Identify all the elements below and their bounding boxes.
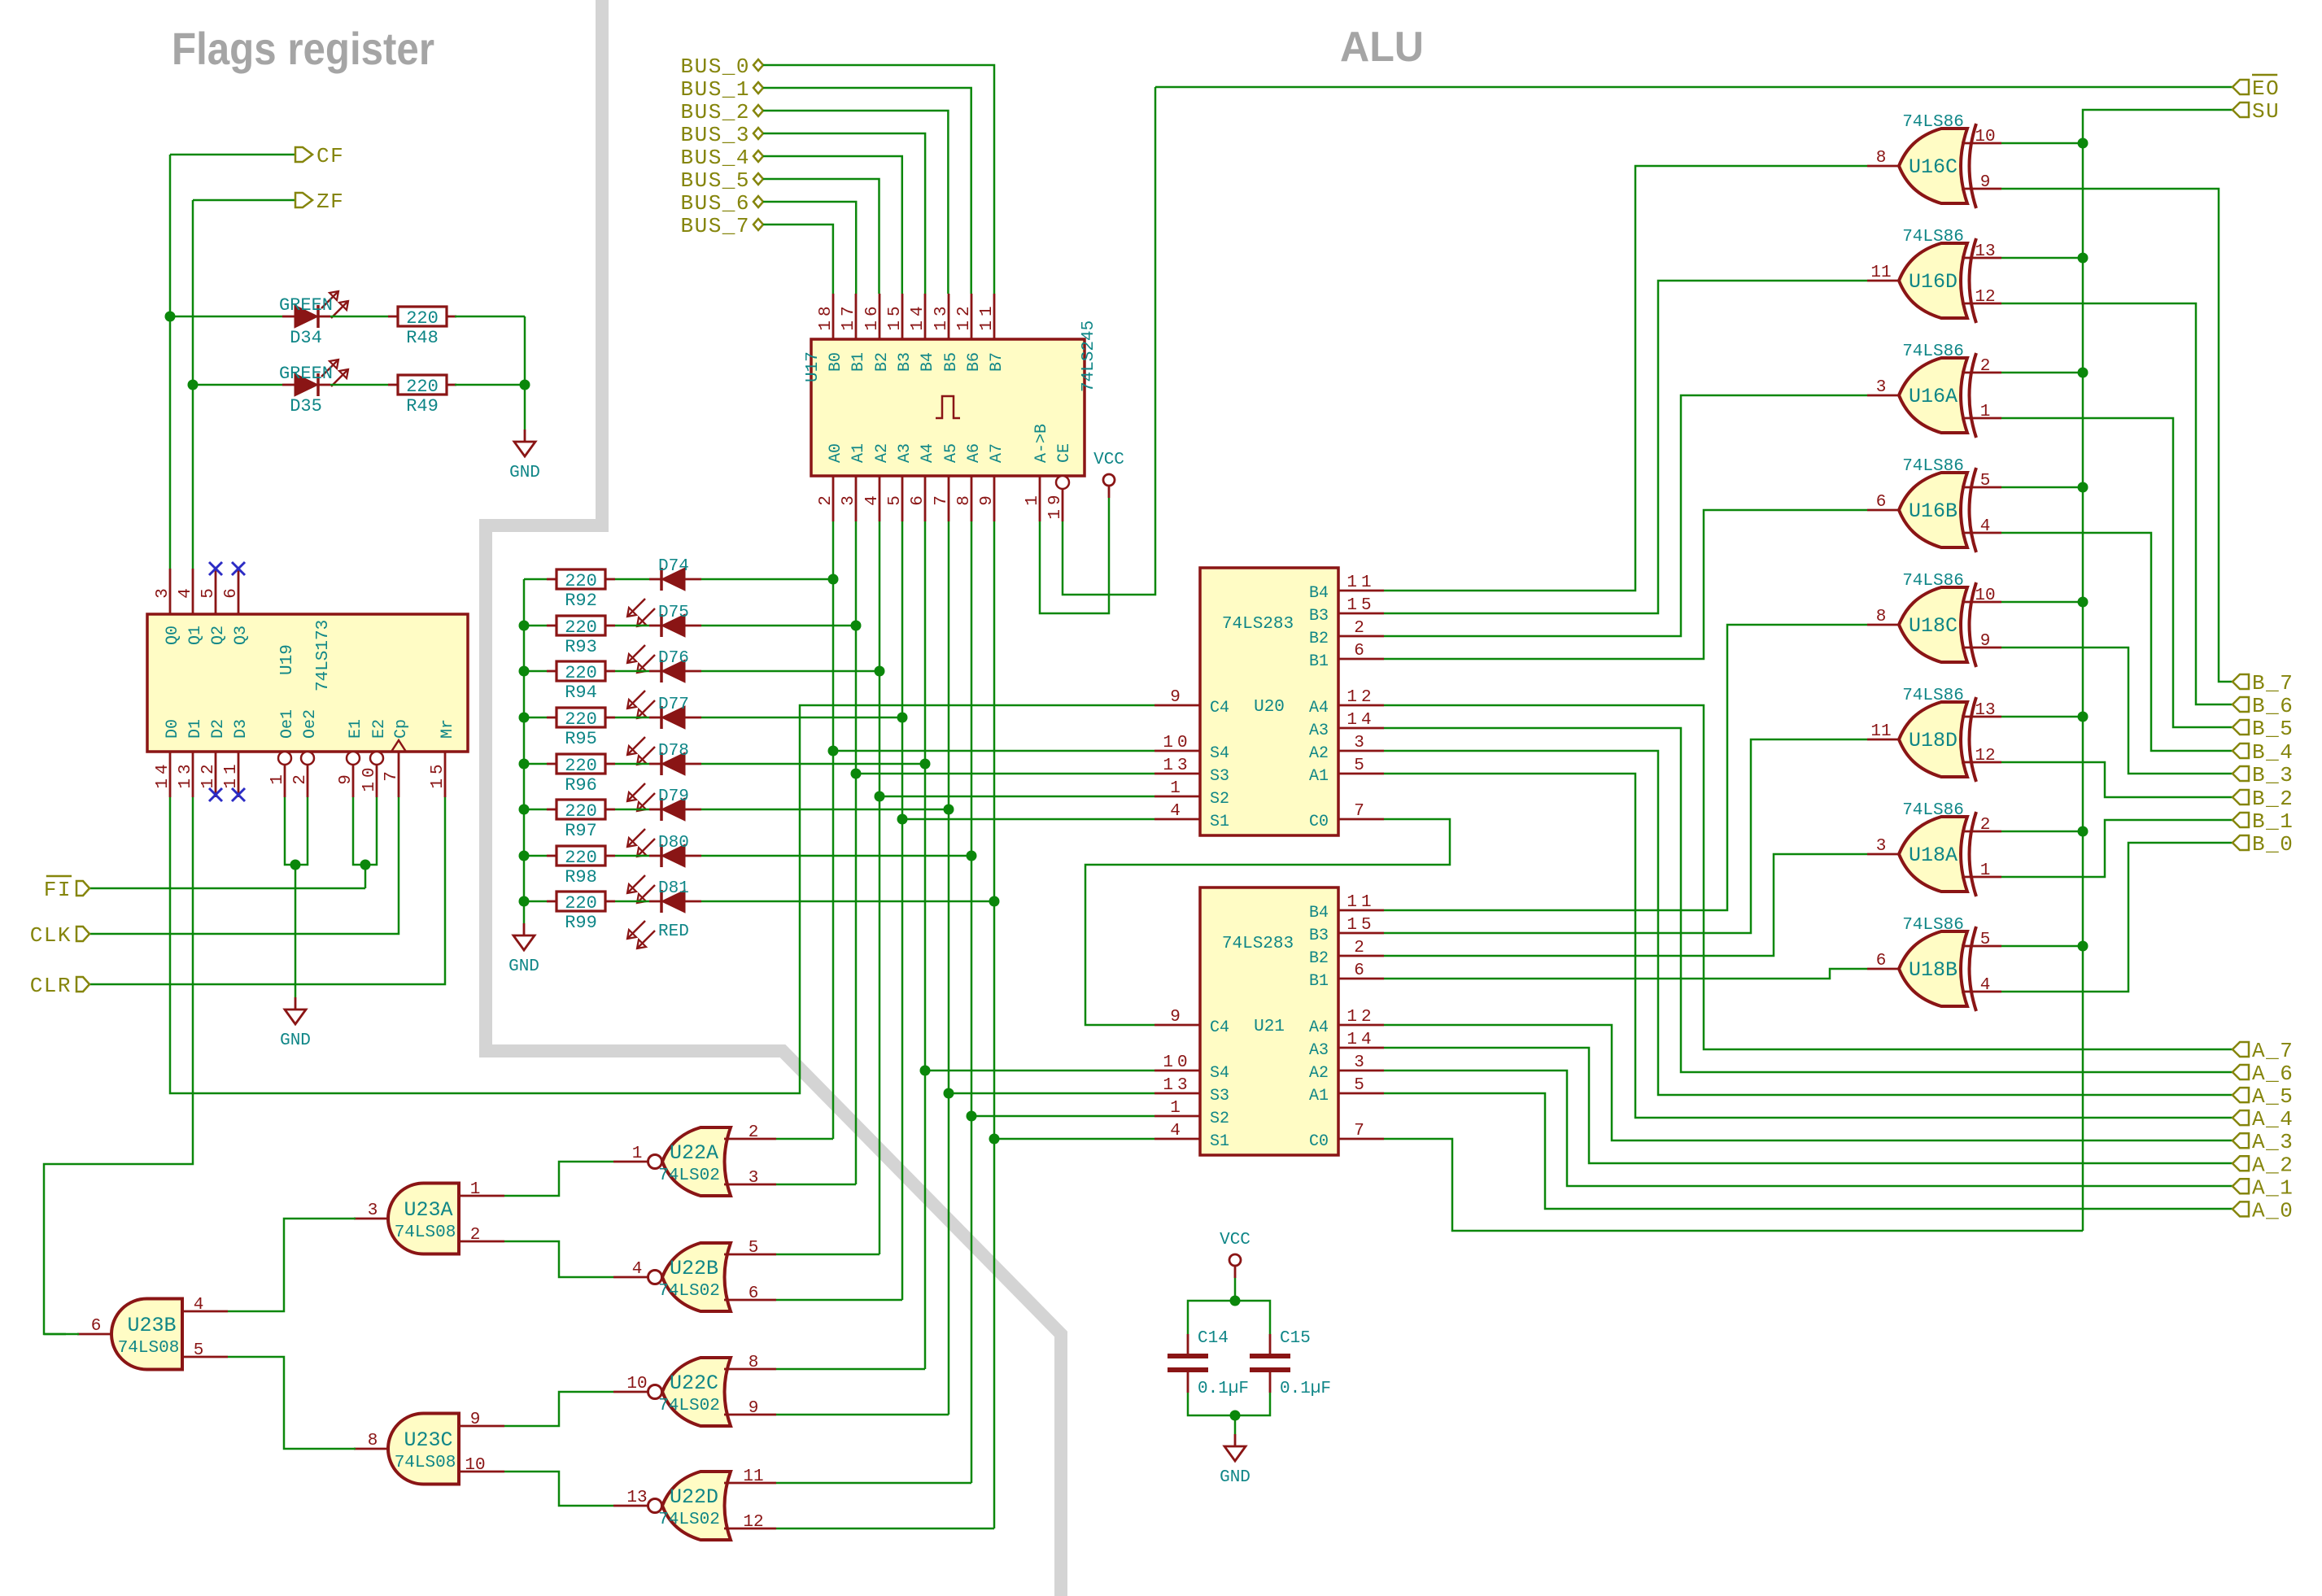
svg-text:S4: S4 (1210, 744, 1229, 763)
svg-text:EO: EO (2252, 76, 2280, 101)
svg-text:GREEN: GREEN (279, 364, 333, 384)
resistor R95 220 (547, 708, 615, 749)
svg-text:D2: D2 (209, 719, 228, 739)
svg-text:B5: B5 (942, 352, 961, 372)
svg-text:4: 4 (1980, 976, 1991, 995)
junction rail R97 (519, 805, 530, 815)
port B_2 (2233, 787, 2294, 811)
no-connect pin 5 U19 (209, 562, 222, 575)
wire bit2 to U22C.9 (776, 1414, 949, 1416)
svg-text:74LS86: 74LS86 (1902, 228, 1964, 246)
svg-text:BUS_2: BUS_2 (680, 100, 750, 124)
port B_7 (2233, 671, 2294, 696)
svg-text:S2: S2 (1210, 1110, 1229, 1128)
wire D76 to sum bit line (701, 670, 879, 673)
wire SU to U21.C0 (1384, 1139, 2083, 1231)
port A_1 (2233, 1175, 2294, 1200)
junction D81 / bit line (989, 896, 1000, 907)
svg-text:B_6: B_6 (2252, 694, 2294, 718)
junction SU / U16A (2078, 368, 2088, 378)
svg-text:S3: S3 (1210, 1087, 1229, 1105)
wire B_0 to xor input (2001, 843, 2233, 992)
svg-text:A4: A4 (919, 443, 937, 463)
svg-text:A3: A3 (1309, 1041, 1329, 1060)
svg-text:4: 4 (1980, 517, 1991, 536)
svg-text:18: 18 (817, 302, 836, 330)
svg-text:R99: R99 (565, 913, 597, 933)
svg-text:B2: B2 (1309, 949, 1329, 968)
svg-text:15: 15 (886, 302, 905, 330)
svg-text:6: 6 (1354, 642, 1368, 661)
svg-text:S2: S2 (1210, 790, 1229, 809)
svg-text:D78: D78 (658, 742, 689, 761)
wire to D34 anode (170, 316, 282, 318)
svg-text:BUS_3: BUS_3 (680, 123, 750, 147)
port A_6 (2233, 1062, 2294, 1086)
svg-text:74LS02: 74LS02 (658, 1397, 720, 1415)
svg-text:11: 11 (222, 760, 241, 788)
xor gate U16A 74LS86 (1867, 342, 2001, 438)
svg-text:B_4: B_4 (2252, 740, 2294, 765)
junction D80 / bit line (967, 851, 977, 861)
wire Oe tie to ground (295, 865, 297, 997)
svg-text:1: 1 (1024, 491, 1042, 506)
svg-text:9: 9 (1980, 173, 1991, 192)
wire R93 to D75 (615, 625, 649, 627)
svg-text:74LS08: 74LS08 (395, 1223, 456, 1242)
svg-text:U23B: U23B (127, 1314, 176, 1337)
svg-text:A1: A1 (1309, 1087, 1329, 1105)
svg-text:2: 2 (1980, 357, 1991, 376)
svg-text:C15: C15 (1280, 1329, 1311, 1348)
wire bit4 to U22B.6 (776, 1299, 902, 1302)
port ZF (295, 190, 344, 214)
svg-text:Q3: Q3 (232, 626, 251, 645)
junction GND rail caps (1230, 1411, 1241, 1421)
svg-text:12: 12 (199, 760, 218, 788)
wire rail to R98 (524, 855, 547, 857)
wire sum to U21.S3 (949, 1092, 1154, 1095)
wire LED ground rail (524, 316, 526, 430)
resistor R99 220 (547, 892, 615, 933)
junction SU / U18A (2078, 826, 2088, 837)
svg-text:R95: R95 (565, 729, 597, 749)
svg-text:74LS86: 74LS86 (1902, 916, 1964, 935)
wire sum to U20.S4 (833, 750, 1154, 752)
svg-text:6: 6 (1876, 952, 1887, 970)
wire SU to U18C top input (2001, 601, 2083, 604)
svg-text:B1: B1 (849, 352, 868, 372)
wire U22C out to U23C.9 (504, 1392, 613, 1426)
svg-text:S1: S1 (1210, 1132, 1229, 1151)
port BUS_0 (680, 55, 763, 79)
wire carry out U20.C4 to U19.D0 (170, 705, 1154, 1093)
port A_4 (2233, 1107, 2294, 1132)
svg-text:CLR: CLR (30, 974, 72, 998)
junction bit line / U21.S1 (989, 1134, 1000, 1145)
wire sum bit 3 line (924, 521, 927, 1369)
junction bit line / U21.S3 (944, 1088, 954, 1099)
svg-text:14: 14 (909, 302, 927, 330)
wire Q1 vertical (192, 200, 194, 569)
svg-text:12: 12 (1975, 747, 1995, 765)
svg-text:9: 9 (1170, 1008, 1185, 1027)
junction bit line / U21.S4 (920, 1066, 931, 1076)
svg-text:3: 3 (1876, 837, 1887, 856)
svg-text:9: 9 (337, 770, 356, 785)
svg-text:11: 11 (1346, 893, 1375, 912)
port A_2 (2233, 1153, 2294, 1177)
svg-text:A_0: A_0 (2252, 1198, 2294, 1223)
wire sum bit 0 line (993, 521, 996, 1528)
wire U23C out to U23B.5 (228, 1357, 356, 1449)
LED D75 red (627, 604, 701, 673)
svg-text:C0: C0 (1309, 1132, 1329, 1151)
svg-text:GND: GND (280, 1031, 311, 1050)
port A_7 (2233, 1039, 2294, 1063)
wire U22A out to U23A.1 (504, 1162, 613, 1196)
svg-text:U21: U21 (1254, 1018, 1285, 1036)
svg-text:4: 4 (632, 1260, 643, 1279)
svg-text:S1: S1 (1210, 813, 1229, 831)
svg-text:B_7: B_7 (2252, 671, 2294, 696)
svg-text:A5: A5 (942, 443, 961, 463)
wire BUS_6 to U17 (763, 202, 856, 294)
svg-text:8: 8 (749, 1354, 759, 1372)
wire SU to U18A top input (2001, 831, 2083, 833)
svg-text:D0: D0 (164, 719, 182, 739)
and gate U23C 74LS08 (354, 1414, 504, 1485)
junction bit line / U20.S2 (875, 791, 885, 802)
wire bit6 to U22A.3 (776, 1184, 856, 1186)
svg-text:D80: D80 (658, 834, 689, 853)
svg-text:2: 2 (1354, 619, 1368, 638)
svg-text:CLK: CLK (30, 923, 72, 948)
svg-text:Q0: Q0 (164, 626, 182, 645)
svg-text:8: 8 (955, 491, 974, 506)
svg-text:17: 17 (840, 302, 858, 330)
wire BUS_5 to U17 (763, 179, 879, 294)
svg-text:4: 4 (194, 1296, 204, 1315)
svg-text:74LS02: 74LS02 (658, 1511, 720, 1529)
wire sum to U20.S1 (902, 818, 1154, 821)
wire A_2 to U21.A3 (1384, 1048, 2233, 1163)
wire rail to R99 (524, 900, 547, 903)
svg-text:E1: E1 (347, 719, 365, 739)
junction Oe tie / ground (290, 860, 301, 870)
xor gate U16C 74LS86 (1867, 113, 2001, 208)
wire sum bit 7 line (832, 521, 835, 1139)
svg-text:D35: D35 (290, 396, 322, 416)
svg-text:1: 1 (268, 770, 287, 785)
wire R49 to ground rail (455, 384, 525, 386)
svg-text:220: 220 (565, 893, 597, 914)
svg-text:12: 12 (955, 302, 974, 330)
junction D74 / bit line (828, 574, 839, 585)
svg-text:RED: RED (658, 922, 689, 941)
junction VCC rail (1230, 1296, 1241, 1306)
svg-text:D76: D76 (658, 649, 689, 668)
svg-text:U17: U17 (804, 351, 823, 382)
junction D75 / bit line (851, 621, 862, 631)
wire cap bottom rail (1188, 1393, 1270, 1415)
svg-text:12: 12 (1346, 1008, 1375, 1027)
svg-text:11: 11 (1870, 722, 1891, 741)
svg-text:220: 220 (565, 663, 597, 683)
svg-text:U22D: U22D (670, 1485, 718, 1509)
svg-text:B3: B3 (1309, 927, 1329, 945)
svg-text:A->B: A->B (1032, 424, 1051, 463)
wire D75 to sum bit line (701, 625, 856, 627)
wire A_3 to U21.A4 (1384, 1025, 2233, 1140)
wire U22B out to U23A.2 (504, 1241, 613, 1277)
wire bit0 to U22D.12 (776, 1528, 994, 1530)
svg-text:19: 19 (1046, 491, 1065, 519)
svg-text:4: 4 (863, 491, 882, 506)
svg-text:9: 9 (1980, 632, 1991, 651)
svg-text:3: 3 (1354, 1053, 1368, 1072)
wire A->B pin to VCC (1040, 498, 1109, 613)
resistor R93 220 (547, 616, 615, 657)
wire SU to U16D top input (2001, 257, 2083, 259)
wire R98 to D80 (615, 855, 649, 857)
svg-text:A2: A2 (1309, 744, 1329, 763)
wire U16C out to U20.B4 (1384, 166, 1867, 591)
LED D34 green (279, 291, 348, 348)
svg-text:U22B: U22B (670, 1257, 718, 1280)
wire B_2 to xor input (2001, 762, 2233, 797)
svg-text:74LS245: 74LS245 (1080, 321, 1098, 392)
svg-text:B2: B2 (1309, 630, 1329, 648)
port FI (active low) (44, 876, 89, 902)
svg-text:15: 15 (1346, 596, 1375, 615)
svg-text:10: 10 (1163, 1053, 1191, 1072)
svg-text:5: 5 (199, 584, 218, 599)
resistor R97 220 (547, 800, 615, 841)
svg-text:6: 6 (1876, 493, 1887, 512)
wire bit7 to U22A.2 (776, 1138, 833, 1140)
svg-text:D1: D1 (186, 719, 205, 739)
wire cap top rail (1188, 1301, 1270, 1334)
svg-text:U16A: U16A (1909, 385, 1958, 408)
svg-text:R48: R48 (406, 328, 439, 348)
wire CLR to Mr (89, 797, 445, 984)
wire R96 to D78 (615, 763, 649, 765)
svg-text:Cp: Cp (392, 719, 411, 739)
svg-text:13: 13 (932, 302, 951, 330)
svg-text:CE: CE (1055, 443, 1074, 463)
svg-text:13: 13 (1163, 757, 1191, 775)
wire sum to U20.S3 (856, 773, 1154, 775)
wire sum bit 6 line (855, 521, 858, 1184)
resistor R49 220 (388, 375, 456, 416)
wire U23B out (44, 1333, 79, 1336)
wire CLK to Cp (89, 797, 399, 934)
svg-text:B4: B4 (1309, 904, 1329, 922)
svg-text:5: 5 (1980, 931, 1991, 949)
partition line between Flags register and ALU sections (486, 0, 1061, 1596)
svg-text:2: 2 (749, 1123, 759, 1142)
svg-text:R96: R96 (565, 775, 597, 796)
svg-text:220: 220 (565, 756, 597, 776)
xor gate U18D 74LS86 (1867, 687, 2001, 782)
svg-text:D75: D75 (658, 604, 689, 622)
xor gate U16D 74LS86 (1867, 228, 2001, 323)
svg-text:5: 5 (886, 491, 905, 506)
wire rail to R94 (524, 670, 547, 673)
wire B_5 to xor input (2001, 418, 2233, 727)
LED D81 red (627, 879, 701, 948)
svg-text:D81: D81 (658, 879, 689, 898)
svg-text:6: 6 (909, 491, 927, 506)
svg-text:14: 14 (1346, 711, 1375, 730)
wire U18C out to U21.B4 (1384, 625, 1867, 910)
wire A_0 to U21.A1 (1384, 1093, 2233, 1209)
wire U23A out to U23B.4 (228, 1219, 356, 1311)
svg-text:74LS86: 74LS86 (1902, 342, 1964, 361)
junction SU / U16C (2078, 138, 2088, 149)
svg-text:74LS02: 74LS02 (658, 1282, 720, 1301)
svg-text:D77: D77 (658, 696, 689, 714)
wire FI (89, 887, 365, 890)
wire D79 to sum bit line (701, 809, 949, 811)
svg-text:13: 13 (177, 760, 195, 788)
wire Q0 to CF (170, 154, 295, 156)
svg-text:8: 8 (368, 1432, 378, 1450)
wire R99 to D81 (615, 900, 649, 903)
junction SU / U16B (2078, 482, 2088, 493)
svg-text:A2: A2 (873, 443, 892, 463)
port EO (active low) (2233, 75, 2280, 101)
port CLR (30, 974, 89, 998)
svg-text:D3: D3 (232, 719, 251, 739)
svg-text:220: 220 (565, 617, 597, 638)
svg-text:8: 8 (1876, 149, 1887, 168)
svg-text:15: 15 (1346, 916, 1375, 935)
svg-text:U23A: U23A (404, 1198, 452, 1222)
svg-text:5: 5 (749, 1239, 759, 1258)
junction D77 / bit line (897, 713, 908, 723)
svg-text:Q1: Q1 (186, 626, 205, 645)
svg-text:Oe1: Oe1 (278, 709, 297, 739)
svg-text:7: 7 (1354, 1122, 1368, 1140)
wire BUS_1 to U17 (763, 88, 971, 294)
svg-text:B7: B7 (988, 352, 1006, 372)
svg-text:7: 7 (932, 491, 951, 506)
svg-text:A4: A4 (1309, 699, 1329, 717)
svg-text:3: 3 (840, 491, 858, 506)
wire rail to GND (1234, 1415, 1237, 1434)
no-connect pin 11 U19 (232, 788, 245, 801)
wire A_1 to U21.A2 (1384, 1071, 2233, 1186)
svg-text:12: 12 (1346, 688, 1375, 707)
svg-text:SU: SU (2252, 99, 2280, 124)
svg-text:GND: GND (509, 464, 540, 482)
port A_3 (2233, 1130, 2294, 1154)
wire B_3 to xor input (2001, 648, 2233, 774)
wire E1/E2 tie (353, 797, 377, 865)
svg-text:5: 5 (1354, 757, 1368, 775)
svg-text:R93: R93 (565, 637, 597, 657)
wire bit1 to U22D.11 (776, 1482, 971, 1485)
port B_3 (2233, 763, 2294, 787)
svg-text:6: 6 (91, 1317, 102, 1336)
wire sum bit 5 line (879, 521, 881, 1254)
svg-text:U18A: U18A (1909, 844, 1958, 867)
wire sum to U21.S1 (994, 1138, 1154, 1140)
flags register U19 74LS173 (147, 569, 468, 797)
svg-text:1: 1 (1980, 403, 1991, 421)
svg-text:7: 7 (1354, 802, 1368, 821)
svg-text:B1: B1 (1309, 972, 1329, 991)
svg-text:9: 9 (749, 1399, 759, 1418)
wire R92 to D74 (615, 578, 649, 581)
svg-text:A_1: A_1 (2252, 1175, 2294, 1200)
ground GND flags LEDs (509, 430, 540, 482)
svg-text:FI: FI (44, 878, 72, 902)
ground GND LED rail (508, 923, 539, 976)
svg-text:A1: A1 (849, 443, 868, 463)
wire BUS_3 to U17 (763, 133, 925, 294)
svg-text:5: 5 (194, 1341, 204, 1360)
svg-text:A2: A2 (1309, 1064, 1329, 1083)
xor gate U18B 74LS86 (1867, 916, 2001, 1011)
xor gate U18A 74LS86 (1867, 801, 2001, 896)
svg-text:A4: A4 (1309, 1018, 1329, 1037)
svg-text:1: 1 (1170, 779, 1185, 798)
nor gate U22D 74LS02 (613, 1472, 776, 1540)
port BUS_6 (680, 191, 763, 216)
LED D77 red (627, 696, 701, 765)
svg-text:11: 11 (1346, 573, 1375, 592)
svg-text:4: 4 (1170, 802, 1185, 821)
svg-text:220: 220 (565, 848, 597, 868)
no-connect pin 6 U19 (232, 562, 245, 575)
svg-text:6: 6 (1354, 962, 1368, 980)
svg-text:220: 220 (406, 377, 439, 397)
wire A_4 to U20.A1 (1384, 774, 2233, 1118)
svg-text:Flags register: Flags register (172, 23, 434, 74)
svg-text:U20: U20 (1254, 698, 1285, 717)
wire BUS_2 to U17 (763, 111, 948, 294)
resistor R94 220 (547, 661, 615, 703)
svg-text:1: 1 (632, 1145, 643, 1163)
svg-text:B_3: B_3 (2252, 763, 2294, 787)
svg-text:U18C: U18C (1909, 614, 1958, 638)
junction rail R94 (519, 666, 530, 677)
junction bit line / U20.S1 (897, 814, 908, 825)
capacitor C15 0.1uF (1250, 1329, 1331, 1398)
svg-text:VCC: VCC (1093, 451, 1124, 469)
wire zero flag U23B out to U19.D1 (44, 797, 193, 1334)
svg-text:3: 3 (1354, 734, 1368, 752)
svg-text:ALU: ALU (1340, 24, 1424, 71)
nor gate U22B 74LS02 (613, 1243, 776, 1311)
wire R97 to D79 (615, 809, 649, 811)
wire SU to U16A top input (2001, 372, 2083, 374)
svg-text:GREEN: GREEN (279, 295, 333, 316)
svg-text:BUS_6: BUS_6 (680, 191, 750, 216)
svg-text:GND: GND (1220, 1468, 1250, 1487)
junction rail R99 (519, 896, 530, 907)
svg-text:16: 16 (863, 302, 882, 330)
wire D78 to sum bit line (701, 763, 925, 765)
svg-text:5: 5 (1354, 1076, 1368, 1095)
wire SU rail (2083, 110, 2233, 1231)
LED D79 red (627, 787, 701, 857)
xor gate U16B 74LS86 (1867, 457, 2001, 552)
junction R49 / rail (520, 380, 530, 390)
